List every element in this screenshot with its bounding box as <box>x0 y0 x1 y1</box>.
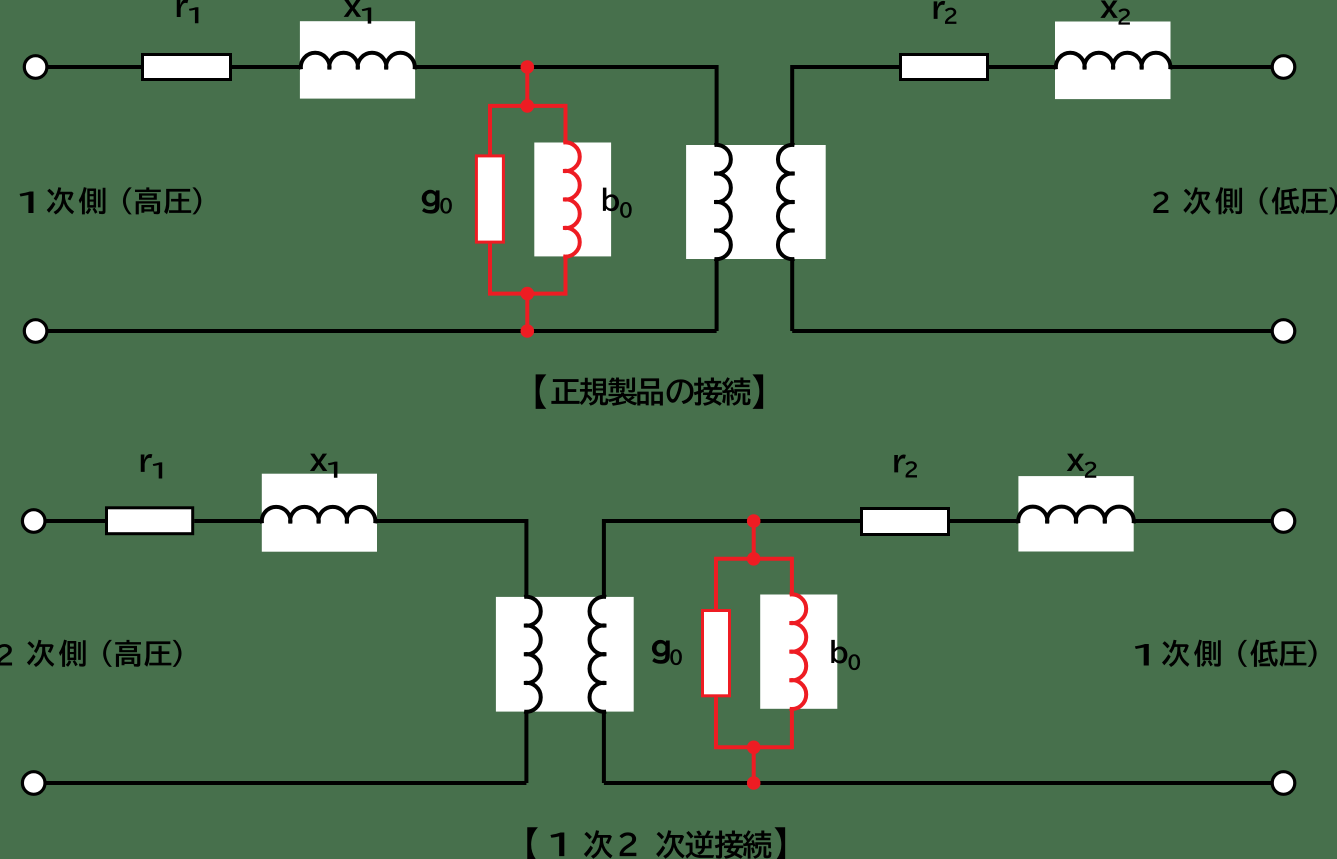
label 2次側（高圧） (secondary side, high voltage) <box>0 640 182 667</box>
junction dot on top rail (top circuit) <box>521 60 535 74</box>
node: primary bottom terminal (top circuit) <box>24 320 47 343</box>
susceptance b0 coil (red, bottom circuit) <box>790 594 807 709</box>
wire: x2 to primary top terminal (bottom circuit) <box>1134 519 1273 523</box>
label x2 (bottom) <box>1067 454 1097 478</box>
node: secondary top terminal (bottom circuit) <box>22 510 45 533</box>
wire: excitation branch top rail + g0 upper lead (red, top circuit) <box>490 106 566 156</box>
junction dot on bottom rail (bottom circuit) <box>747 776 761 790</box>
inductor x2 coil (bottom circuit) <box>1018 507 1134 524</box>
susceptance b0 white box (top circuit) <box>534 143 611 257</box>
wire: x2 to secondary top terminal <box>1170 65 1273 69</box>
wire: transformer left winding bottom lead (bottom circuit) <box>524 712 528 783</box>
label r2 (bottom) <box>894 455 917 478</box>
junction dot at parallel bottom (top circuit) <box>521 287 535 301</box>
junction dot on top rail (bottom circuit) <box>747 514 761 528</box>
susceptance b0 coil (red, top circuit) <box>563 142 580 256</box>
wire: r1 to x1 <box>232 65 302 69</box>
transformer T2 right winding (bottom circuit) <box>590 597 607 712</box>
wire: x1 to transformer (bottom circuit) <box>375 521 526 597</box>
conductance g0 (red resistor, bottom circuit) <box>703 611 730 696</box>
wire: bottom rail right (bottom circuit) <box>604 781 1273 785</box>
label b0 (top) <box>603 188 632 218</box>
label r1 (top) <box>177 0 199 23</box>
wire: transformer right winding top lead to r2 (bottom circuit) <box>604 521 861 597</box>
node: primary bottom terminal (bottom circuit) <box>1272 772 1295 795</box>
wire: top-left horizontal (terminal to r1) <box>46 65 142 69</box>
wire: bottom rail right (top circuit) <box>792 329 1273 333</box>
wire: transformer right winding bottom lead (bottom circuit) <box>602 712 606 783</box>
node: secondary bottom terminal (top circuit) <box>1272 320 1295 343</box>
wire: transformer secondary bottom lead <box>790 259 794 331</box>
inductor x1 coil (bottom circuit) <box>262 507 376 523</box>
label r2 (top) <box>934 1 957 24</box>
wire: g0 branch lower lead + bottom rail (red, top circuit) <box>490 244 566 294</box>
wire: b0 branch lower lead (red, top circuit) <box>564 256 566 293</box>
junction dot at parallel top (top circuit) <box>521 99 535 113</box>
wire: b0 branch lower lead (red, bottom circuit) <box>790 709 792 748</box>
label 1次側（低圧） (primary side, low voltage) <box>1135 640 1317 668</box>
caption 【1次2次逆接続】 <box>527 827 785 859</box>
label r1 (bottom) <box>141 454 162 478</box>
label b0 (bottom) <box>831 640 860 670</box>
label g0 (bottom) <box>652 640 682 665</box>
node: primary top terminal (bottom circuit) <box>1272 510 1295 533</box>
wire: excitation branch stem from top rail (red, bottom circuit) <box>752 521 756 559</box>
inductor x2 coil (top circuit) <box>1056 53 1171 70</box>
inductor x1 white box (top circuit) <box>300 21 415 98</box>
wire: x1 to transformer primary, with junction at node A <box>415 67 717 145</box>
transformer T1 secondary winding (top circuit) <box>778 145 795 259</box>
node: secondary bottom terminal (bottom circuit) <box>22 772 45 795</box>
wire: r1 to x1 (bottom circuit) <box>194 519 263 523</box>
wire: transformer primary bottom lead <box>715 259 719 331</box>
label 2次側（低圧） (secondary side, low voltage) <box>1153 187 1337 215</box>
label g0 (top) <box>422 190 452 214</box>
label x1 (top) <box>344 0 372 24</box>
resistor r1 (top circuit) <box>143 55 231 80</box>
wire: g0 branch lower lead + bottom rail (red, bottom circuit) <box>716 697 792 747</box>
conductance g0 (red resistor, top circuit) <box>476 156 503 242</box>
wire: bottom rail left (bottom circuit) <box>44 781 526 785</box>
label x1 (bottom) <box>310 454 338 478</box>
transformer T2 core white box (bottom circuit) <box>496 597 634 712</box>
inductor x2 white box (bottom circuit) <box>1018 476 1133 551</box>
resistor r2 (bottom circuit) <box>862 509 949 535</box>
wire: transformer secondary top lead to r2 <box>792 67 900 145</box>
inductor x1 coil (top circuit) <box>301 53 415 69</box>
wire: excitation branch top rail + g0 upper lead (red, bottom circuit) <box>716 559 792 611</box>
junction dot at parallel top (bottom circuit) <box>747 552 761 566</box>
transformer T2 left winding (bottom circuit) <box>524 597 541 712</box>
junction dot at parallel bottom (bottom circuit) <box>747 741 761 755</box>
transformer T1 core white box (top circuit) <box>686 145 826 259</box>
wire: excitation branch stem to bottom rail (red, bottom circuit) <box>752 747 756 783</box>
inductor x1 white box (bottom circuit) <box>262 474 377 552</box>
wire: terminal to r1 (bottom circuit) <box>44 519 106 523</box>
wire: excitation branch stem to bottom rail (red, top circuit) <box>525 294 529 331</box>
caption 【正規製品の接続】 <box>536 374 764 409</box>
node: secondary top terminal (top circuit) <box>1272 56 1295 79</box>
wire: excitation branch stem from top rail (red, top circuit) <box>525 67 529 106</box>
resistor r1 (bottom circuit) <box>107 508 193 534</box>
wire: bottom rail left (top circuit) <box>46 329 717 333</box>
inductor x2 white box (top circuit) <box>1055 22 1171 100</box>
susceptance b0 white box (bottom circuit) <box>760 595 837 709</box>
wire: b0 branch upper lead (red, top circuit) <box>564 106 566 143</box>
wire: r2 to x2 <box>989 65 1057 69</box>
label x2 (top) <box>1100 1 1130 25</box>
wire: b0 branch upper lead (red, bottom circuit) <box>790 559 792 595</box>
wire: r2 to x2 (bottom circuit) <box>950 519 1019 523</box>
transformer T1 primary winding (top circuit) <box>714 145 731 259</box>
node: primary top terminal (top circuit) <box>24 56 47 79</box>
label 1次側（高圧） (primary side, high voltage) <box>20 187 202 214</box>
resistor r2 (top circuit) <box>901 55 988 80</box>
junction dot on bottom rail (top circuit) <box>521 324 535 338</box>
